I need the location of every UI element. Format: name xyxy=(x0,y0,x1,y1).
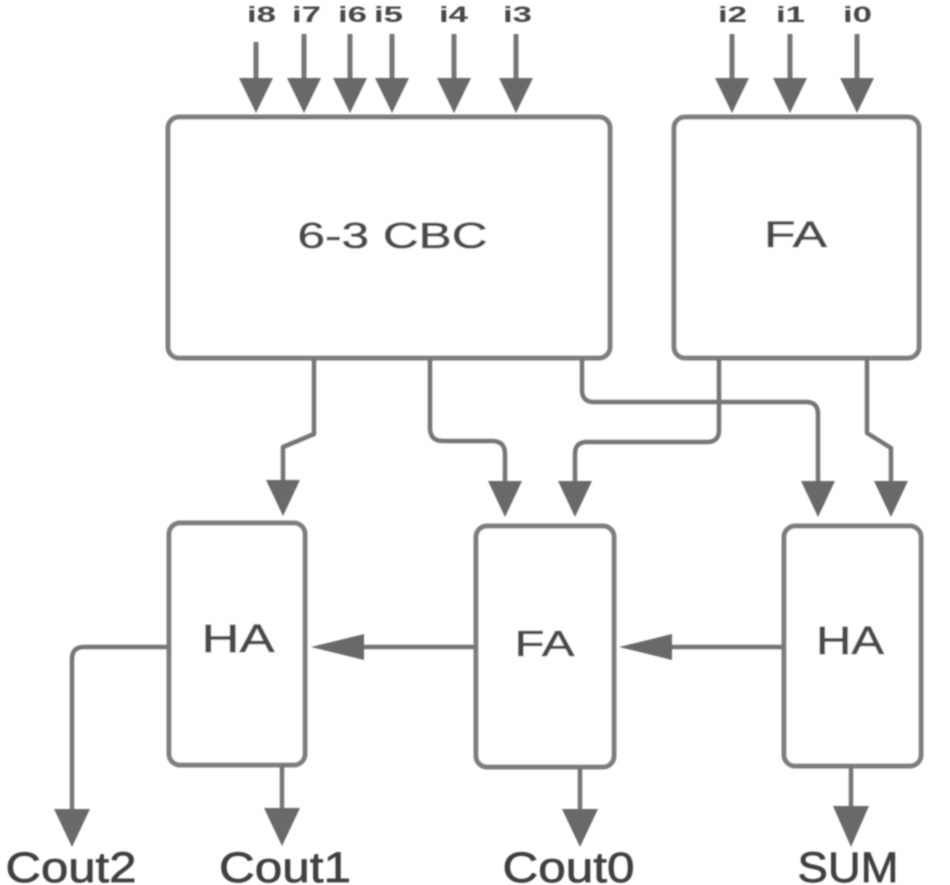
block HA right xyxy=(784,526,921,766)
input arrow i8 xyxy=(239,42,273,113)
svg-text:i2: i2 xyxy=(718,2,747,27)
svg-text:Cout1: Cout1 xyxy=(219,844,351,885)
wire output Cout1 xyxy=(264,765,300,846)
wire output Cout0 xyxy=(562,767,598,847)
wire FA top sum to FA middle xyxy=(558,358,719,517)
input arrow i2 xyxy=(715,34,749,113)
input arrow i4 xyxy=(437,34,471,113)
wire carry FA middle to HA left xyxy=(311,634,476,660)
wire CBC output 1 to HA left xyxy=(266,358,314,516)
block FA middle xyxy=(476,526,614,767)
svg-text:i1: i1 xyxy=(776,2,805,27)
svg-text:FA: FA xyxy=(515,623,575,664)
svg-text:HA: HA xyxy=(816,619,884,663)
svg-text:i5: i5 xyxy=(374,2,403,27)
svg-text:HA: HA xyxy=(202,617,275,661)
wire output Cout2 xyxy=(54,647,169,847)
input arrow i3 xyxy=(499,34,533,113)
svg-text:i0: i0 xyxy=(843,2,872,27)
input arrow i6 xyxy=(333,34,367,113)
svg-text:i6: i6 xyxy=(338,2,367,27)
svg-text:6-3 CBC: 6-3 CBC xyxy=(298,215,488,256)
svg-text:Cout0: Cout0 xyxy=(503,844,635,885)
wire output SUM xyxy=(833,766,869,847)
input arrow i0 xyxy=(840,34,874,113)
svg-text:i7: i7 xyxy=(292,2,321,27)
wire CBC output 3 to HA right xyxy=(582,358,835,517)
svg-text:SUM: SUM xyxy=(798,844,899,885)
block FA top xyxy=(674,117,919,358)
svg-text:i4: i4 xyxy=(439,2,469,27)
block HA left xyxy=(169,523,305,765)
wire carry HA right to FA middle xyxy=(619,634,784,660)
input arrow i7 xyxy=(287,34,321,113)
wire FA top carry to HA right xyxy=(867,358,908,517)
svg-text:FA: FA xyxy=(764,214,827,255)
input arrow i1 xyxy=(773,34,807,113)
svg-text:i3: i3 xyxy=(503,2,532,27)
wire CBC output 2 to FA middle xyxy=(430,358,522,517)
svg-text:Cout2: Cout2 xyxy=(6,844,137,885)
input arrow i5 xyxy=(375,34,409,113)
svg-text:i8: i8 xyxy=(247,2,276,27)
block 6-3 CBC xyxy=(168,117,610,358)
